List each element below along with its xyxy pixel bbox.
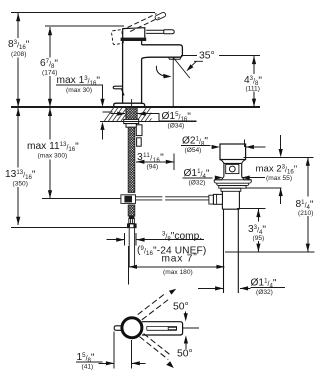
- topview lever tip insert: [168, 327, 176, 329]
- locknut: [124, 119, 139, 123]
- dim 111 lines: [219, 56, 260, 107]
- supply hose upper: [128, 127, 135, 192]
- extension line lever horizontal level: [45, 25, 124, 27]
- text mask 95: [247, 222, 267, 242]
- svg-text:(Ø54): (Ø54): [185, 147, 202, 154]
- arrow 94 right: [166, 160, 174, 164]
- neck window hole: [229, 166, 235, 172]
- fixing stud: [136, 125, 142, 136]
- flange underside extension: [246, 187, 281, 189]
- flange washer: [219, 186, 246, 189]
- compression nut: [127, 223, 137, 228]
- aerator angle V vertical leg: [172, 58, 174, 107]
- drain body upper: [222, 191, 239, 209]
- svg-text:(max 55): (max 55): [266, 175, 292, 182]
- supply end extension line: [11, 227, 127, 229]
- arrow 94 left: [136, 160, 144, 164]
- lever bar horizontal: [146, 30, 164, 34]
- 35 deg leader line: [181, 54, 197, 56]
- svg-text:Ø21/8": Ø21/8": [182, 136, 208, 148]
- drain cap: [220, 144, 246, 160]
- dia54 leader underline: [181, 144, 211, 146]
- counter underside line: [100, 121, 197, 123]
- faucet base plate: [114, 103, 145, 107]
- swivel arc arrow: [156, 66, 164, 76]
- arrow 300 bottom down: [48, 190, 52, 198]
- arrow dia32top right-side left: [242, 176, 250, 180]
- arrow comp right: [136, 238, 144, 242]
- arrow 30 bottom up: [100, 122, 104, 130]
- svg-text:(Ø32): (Ø32): [256, 289, 273, 296]
- dim 30 drop line: [56, 85, 113, 140]
- svg-text:Ø11/4": Ø11/4": [251, 278, 277, 290]
- aerator angle V diagonal leg: [173, 57, 190, 78]
- arrow 208 top up: [16, 13, 20, 21]
- dashed handle alt position: [111, 30, 123, 45]
- arrow 41 right left: [132, 361, 140, 365]
- dim max180 lines: [129, 246, 225, 284]
- mounting shank threaded: [126, 107, 137, 121]
- arrow 50dn at bar: [184, 335, 188, 343]
- dim 94 lines: [136, 154, 174, 171]
- text mask 111: [243, 74, 263, 92]
- svg-text:(95): (95): [253, 235, 265, 242]
- supply hose lower: [128, 205, 135, 216]
- arrow 111 top up: [252, 56, 256, 64]
- arrow max55 top down: [279, 149, 283, 157]
- rod level extension line: [42, 198, 121, 200]
- fitting nut: [129, 219, 135, 224]
- svg-text:(max 180): (max 180): [163, 269, 193, 276]
- dia32 bottom leader: [198, 287, 285, 290]
- pop-up tee: [121, 195, 136, 204]
- arrow 180 right: [216, 265, 224, 269]
- text mask max300: [26, 140, 83, 160]
- dashed lever tip capsule: [154, 12, 166, 21]
- topview upper dashed lever: [138, 293, 171, 320]
- topview lower dashed lever: [140, 334, 172, 360]
- arrow 350 top up: [16, 108, 20, 116]
- arrow 180 left: [129, 265, 137, 269]
- arrow comp left: [116, 238, 124, 242]
- dim 210 line: [307, 158, 309, 252]
- drain tube: [224, 209, 239, 293]
- head dark band: [121, 38, 147, 41]
- ferrule: [129, 216, 135, 219]
- arrow dia54 leader right: [212, 145, 220, 149]
- drain neck: [224, 163, 242, 176]
- supply tube end: [129, 228, 134, 267]
- dim 41 lines: [76, 362, 146, 363]
- comp fitting arrows tails: [107, 239, 205, 241]
- cartridge head: [123, 28, 145, 38]
- drain flange: [214, 180, 251, 186]
- pop-up rod left segment: [136, 197, 163, 200]
- max55 dim lines: [243, 135, 313, 204]
- arrow dia34 right: [137, 112, 145, 116]
- arrow max55 bottom up: [279, 188, 283, 196]
- arrow dia54 right-side left: [246, 145, 254, 149]
- arrow 95 top up: [256, 209, 260, 217]
- spout: [142, 45, 183, 59]
- dia32 right tail: [242, 177, 266, 179]
- svg-text:(41): (41): [82, 364, 94, 371]
- 35deg leader arrow: [192, 61, 203, 65]
- arrow 210 bottom down: [306, 244, 310, 252]
- aerator: [169, 57, 182, 59]
- lift rod knob: [113, 86, 124, 95]
- svg-text:(94): (94): [147, 164, 159, 171]
- arrow dia32bot right-side left: [240, 286, 248, 290]
- text mask 350: [4, 168, 38, 188]
- text mask 210: [294, 197, 315, 217]
- svg-text:(208): (208): [11, 51, 26, 58]
- bottomview centerline: [183, 327, 200, 329]
- counter hatch right: [138, 108, 152, 122]
- dim line 208/350: [17, 13, 19, 225]
- topview body circle: [122, 318, 142, 338]
- comp fitting extension stubs: [125, 233, 137, 246]
- rod clevis nut: [209, 195, 214, 204]
- dia54 right tail: [245, 140, 266, 147]
- svg-text:(174): (174): [42, 70, 57, 77]
- faucet base centerline: [131, 99, 133, 107]
- arrow 41 left right: [106, 361, 114, 365]
- drain shoulder: [220, 160, 246, 164]
- dim line 174/300: [49, 27, 51, 198]
- dashed lever raised lower line: [130, 17, 159, 31]
- svg-text:50°: 50°: [177, 349, 193, 360]
- drain flange flare: [214, 177, 251, 180]
- bottomview 50dn arrow stub: [185, 343, 187, 349]
- arrow 50dn dashed end: [166, 361, 174, 368]
- pop-up rod right segment: [165, 197, 209, 200]
- dim 41 extension lines: [114, 332, 131, 369]
- topview lever bar: [142, 322, 183, 335]
- topview lift rod knob: [114, 326, 122, 331]
- counter hatch left: [104, 108, 125, 122]
- arrow 95 bottom down: [256, 244, 260, 252]
- svg-text:max 7": max 7": [162, 252, 198, 265]
- top extension line (lever max height): [11, 12, 155, 14]
- lock washer: [126, 124, 137, 128]
- dia32 top leader underline: [183, 177, 213, 179]
- svg-text:35°: 35°: [199, 51, 215, 62]
- fixing nut: [137, 138, 142, 146]
- arrow 174 bottom down: [48, 99, 52, 107]
- ball rod housing: [213, 194, 222, 204]
- svg-text:50°: 50°: [173, 302, 189, 313]
- arrow 50up dashed end: [169, 289, 176, 295]
- arrow dia34 left: [117, 112, 125, 116]
- text mask 208: [7, 38, 35, 58]
- arrow 111 bottom down: [252, 99, 256, 107]
- arrow 50up at bar: [184, 313, 188, 321]
- tailpiece end line: [225, 251, 314, 253]
- flange collar: [221, 188, 241, 191]
- svg-text:Ø11/4": Ø11/4": [184, 168, 210, 180]
- dia34 leader: [110, 114, 196, 121]
- dashed lever raised upper line: [128, 14, 157, 28]
- arrow 210 top up: [306, 158, 310, 166]
- arrow 174 top up: [48, 27, 52, 35]
- svg-text:(350): (350): [13, 181, 28, 188]
- svg-text:(max 30): (max 30): [66, 87, 92, 94]
- arrow 350 bottom down: [16, 217, 20, 225]
- arrow dia32top leader right: [215, 176, 223, 180]
- faucet body: [123, 41, 142, 103]
- bottomview 50up arrow stub: [185, 312, 187, 317]
- topview lever inner groove: [147, 326, 177, 330]
- lever tip capsule: [164, 30, 174, 34]
- countertop line: [11, 106, 260, 108]
- svg-text:(Ø32): (Ø32): [189, 180, 206, 187]
- arrow 300 top up: [48, 108, 52, 116]
- arrow dia32bot left-side right: [215, 286, 223, 290]
- svg-text:(max 300): (max 300): [38, 153, 68, 160]
- arrow 208 bottom down: [16, 99, 20, 107]
- text mask 174: [39, 58, 60, 77]
- arrow 30 top down: [100, 99, 104, 107]
- svg-text:(210): (210): [298, 210, 313, 217]
- dim 95 lines: [237, 209, 265, 252]
- svg-text:(Ø34): (Ø34): [168, 123, 185, 130]
- neck window: [226, 164, 239, 173]
- svg-text:(111): (111): [246, 86, 260, 93]
